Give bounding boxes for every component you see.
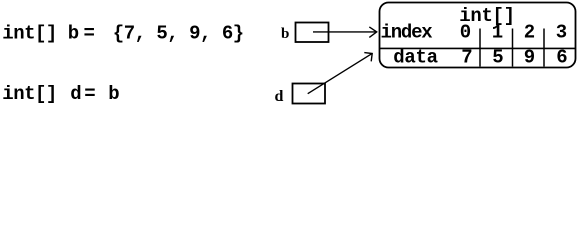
column separator 3 [543,29,545,67]
arrow from b to array [313,27,377,38]
svg-text:0: 0 [460,22,471,44]
svg-text:6: 6 [556,47,567,69]
svg-text:int[] b: int[] b [2,23,78,45]
svg-text:data: data [393,47,437,69]
svg-text:3: 3 [556,22,567,44]
array object rounded box [380,3,576,68]
svg-text:index: index [381,22,433,44]
svg-text:=: = [84,23,95,45]
svg-text:b: b [108,83,119,105]
column separator 1 [479,29,481,67]
svg-text:b: b [281,26,289,42]
variable box d [293,84,326,104]
arrow from d to array [308,53,373,94]
svg-text:{7, 5, 9, 6}: {7, 5, 9, 6} [113,23,244,45]
svg-text:2: 2 [524,22,535,44]
svg-text:d: d [70,83,81,105]
svg-text:int[]: int[] [2,83,57,105]
variable box b [296,23,329,43]
svg-text:9: 9 [524,47,535,69]
column separator 2 [512,29,514,67]
divider line between index and data [380,47,576,49]
svg-text:d: d [275,88,284,105]
svg-text:7: 7 [461,47,472,69]
svg-text:=: = [84,83,95,105]
svg-text:1: 1 [492,22,503,44]
svg-text:5: 5 [492,47,503,69]
